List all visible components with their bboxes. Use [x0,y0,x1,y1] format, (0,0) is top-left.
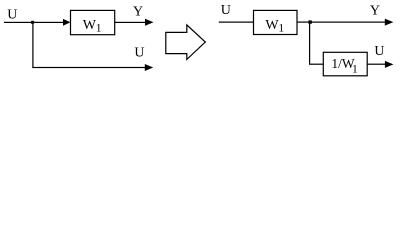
arrowhead U output (left bottom) [145,64,153,71]
wire (left input line) [4,22,64,23]
svg-text:W: W [83,18,97,33]
block W1 (left) [71,10,115,34]
svg-text:1: 1 [278,22,284,34]
svg-text:U: U [221,3,231,18]
wire (left branch horizontal) [32,67,145,68]
wire (right output line) [297,22,386,23]
junction (right branch point) [308,20,311,23]
arrowhead into W1 (left) [63,19,71,26]
svg-text:1: 1 [96,22,102,34]
svg-text:W: W [265,18,279,33]
arrowhead Y output (left) [145,19,154,26]
svg-text:1: 1 [352,64,358,76]
block W1 (right) [254,10,298,34]
svg-text:Y: Y [370,4,380,19]
svg-text:U: U [374,44,384,59]
wire (right branch horizontal into 1/W1) [309,64,324,65]
wire (right bottom output line) [367,64,386,65]
wire (left output line) [115,22,148,23]
big implication arrow [166,25,206,60]
wire (right input line) [219,22,254,23]
svg-text:Y: Y [133,5,143,20]
wire (left branch vertical) [32,22,33,68]
wire (right branch vertical) [309,22,310,65]
svg-text:U: U [134,46,144,61]
arrowhead U output (right bottom) [385,61,394,68]
block 1/W1 [323,52,367,76]
arrowhead Y output (right) [385,19,394,26]
svg-text:U: U [7,7,17,22]
junction (left branch point) [31,21,34,24]
